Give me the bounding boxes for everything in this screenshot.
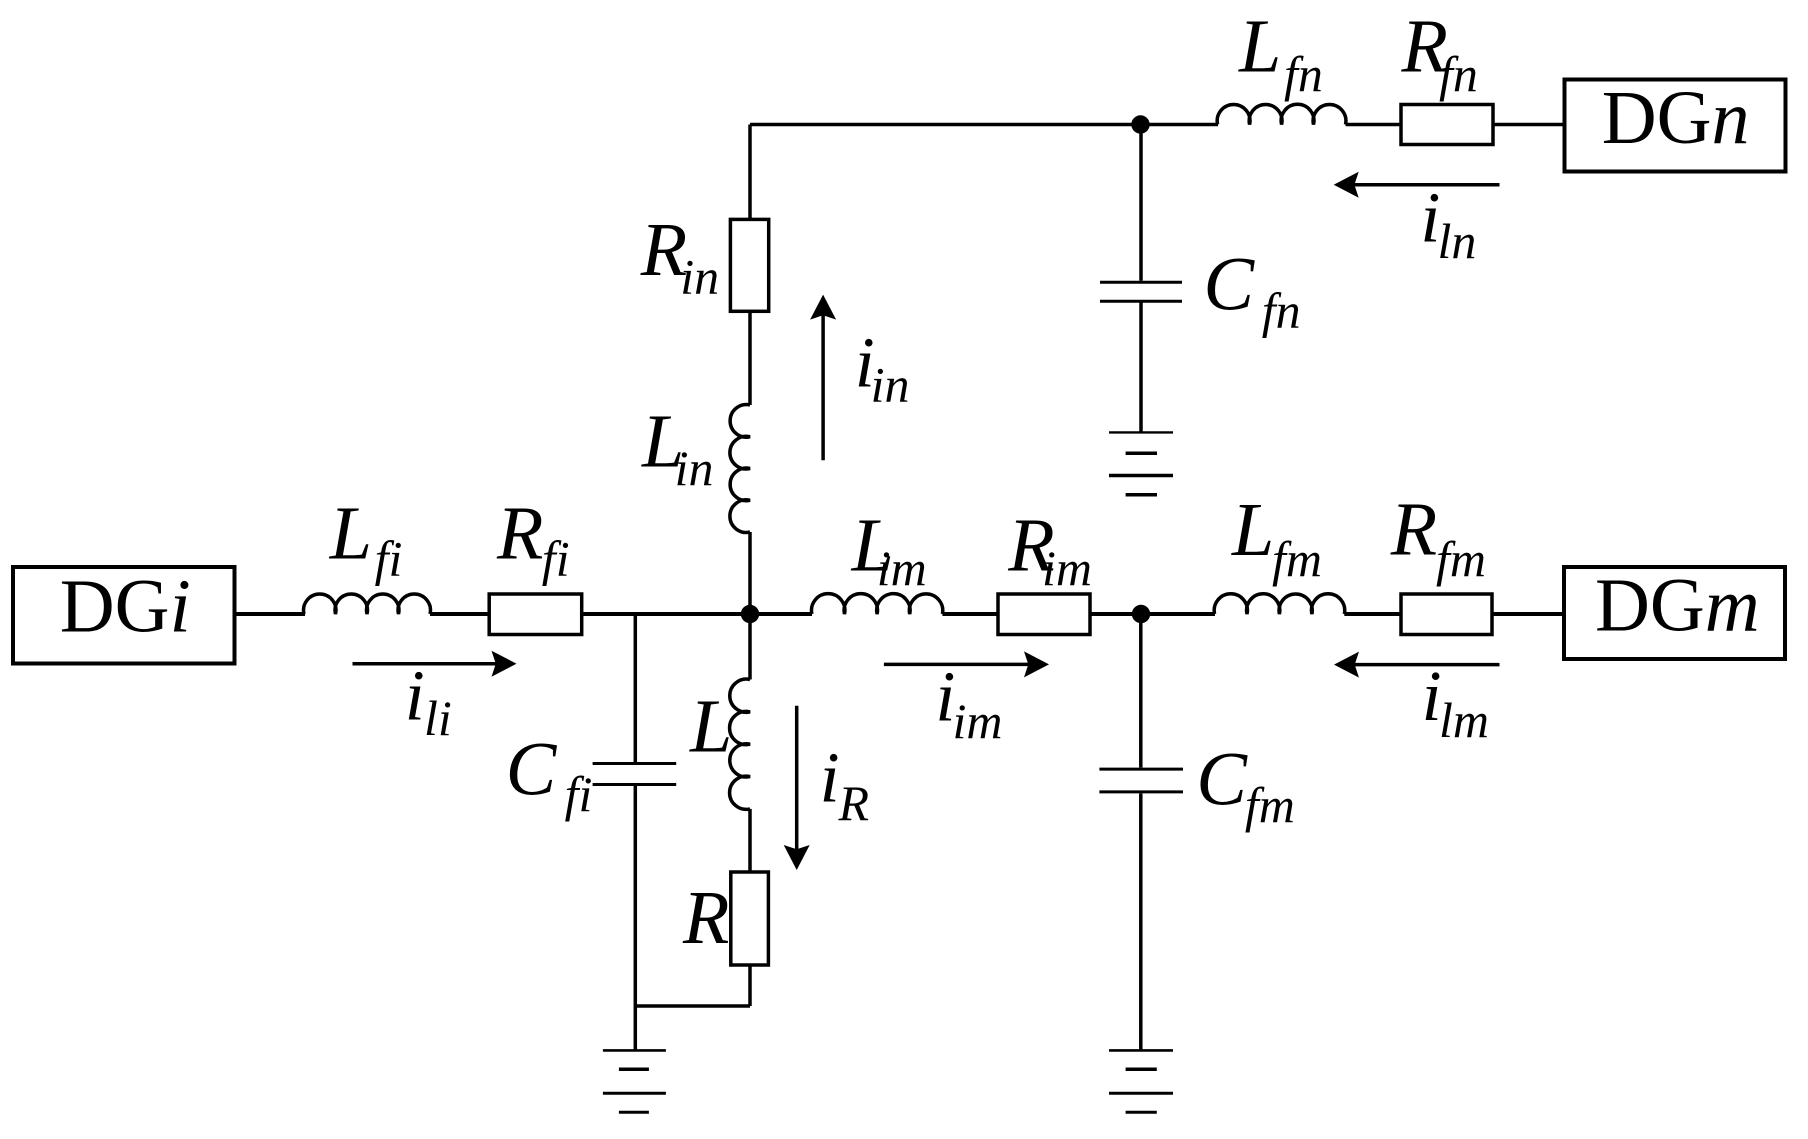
- node A junction dot: [741, 605, 759, 623]
- svg-text:fm: fm: [1436, 531, 1486, 587]
- svg-text:lm: lm: [1439, 692, 1489, 748]
- wire node A to C_fi: [634, 614, 638, 762]
- svg-text:DGn: DGn: [1602, 76, 1750, 160]
- resistor R_in: [730, 219, 768, 311]
- svg-text:in: in: [675, 440, 714, 496]
- label C_fi: [506, 728, 593, 823]
- resistor R: [731, 872, 769, 965]
- svg-text:im: im: [953, 693, 1003, 749]
- svg-text:fi: fi: [375, 531, 403, 587]
- svg-text:R: R: [838, 775, 870, 831]
- wire C_fi to ground: [634, 786, 638, 1050]
- inductor L_fn: [1217, 104, 1346, 124]
- arrow i_li: [353, 651, 517, 677]
- inductor L_im: [812, 594, 943, 614]
- resistor R_fn: [1401, 105, 1493, 145]
- inductor L_fi: [304, 594, 431, 614]
- wire node B to C_fm: [1139, 614, 1143, 768]
- capacitor C_fi: [593, 764, 677, 785]
- label i_im: [935, 657, 1002, 750]
- svg-text:fm: fm: [1245, 777, 1295, 833]
- svg-text:i: i: [820, 737, 840, 817]
- label R_fn: [1401, 5, 1478, 103]
- svg-text:C: C: [1203, 243, 1255, 327]
- label L_fm: [1231, 488, 1322, 587]
- arrow i_in: [810, 295, 836, 461]
- node C junction dot: [1131, 115, 1149, 133]
- inductor L: [730, 679, 750, 809]
- svg-text:ln: ln: [1438, 213, 1477, 269]
- arrow i_im: [884, 651, 1049, 677]
- wire L to R: [748, 809, 752, 872]
- wire L_fm to R_fm: [1344, 612, 1401, 616]
- wire L_im to R_im: [942, 612, 998, 616]
- label R_fm: [1390, 488, 1486, 587]
- svg-text:fi: fi: [542, 531, 570, 587]
- svg-text:fn: fn: [1262, 283, 1301, 339]
- svg-text:fn: fn: [1284, 46, 1323, 102]
- svg-text:li: li: [424, 690, 452, 746]
- svg-text:im: im: [877, 540, 927, 596]
- label i_lm: [1422, 656, 1489, 748]
- wire R_fm to DGm: [1492, 612, 1565, 616]
- svg-text:im: im: [1042, 540, 1092, 596]
- label R_in: [640, 208, 719, 304]
- svg-text:L: L: [329, 492, 372, 576]
- svg-text:R: R: [1390, 488, 1437, 572]
- wire C_fn to ground: [1139, 303, 1143, 433]
- ground under C_fm: [1109, 1050, 1173, 1112]
- wire R_im to node B: [1090, 612, 1215, 616]
- svg-text:R: R: [682, 876, 729, 960]
- label i_in: [855, 322, 910, 412]
- label i_ln: [1420, 177, 1476, 269]
- label L_fi: [329, 492, 403, 587]
- wire L_fn to R_fn: [1346, 123, 1402, 127]
- label i_li: [405, 656, 452, 747]
- label L_im: [851, 504, 927, 597]
- arrow i_lm: [1334, 652, 1500, 678]
- label C_fm: [1196, 738, 1295, 834]
- svg-text:L: L: [1238, 5, 1281, 89]
- inductor L_fm: [1214, 594, 1345, 614]
- wire top horizontal: [750, 123, 1218, 127]
- svg-text:in: in: [871, 356, 910, 412]
- label L_in: [641, 400, 714, 497]
- wire R to bottom: [748, 965, 752, 1006]
- svg-text:L: L: [689, 685, 732, 769]
- DG box m: [1564, 567, 1785, 659]
- label C_fn: [1203, 243, 1300, 339]
- inductor L_in: [730, 405, 750, 533]
- arrow i_R: [784, 706, 810, 870]
- wire top node to C_fn: [1139, 125, 1143, 281]
- svg-text:fi: fi: [565, 766, 593, 822]
- svg-text:in: in: [680, 248, 719, 304]
- wire node A to L: [748, 614, 752, 680]
- resistor R_fm: [1401, 594, 1492, 635]
- ground under C_fi: [603, 1050, 666, 1112]
- svg-text:i: i: [405, 656, 425, 736]
- wire L_in to node A: [748, 532, 752, 614]
- svg-text:R: R: [496, 492, 543, 576]
- resistor R_im: [998, 594, 1090, 635]
- wire R_fi to node A: [582, 612, 812, 616]
- svg-text:C: C: [506, 728, 558, 812]
- wire R_fn to DGn: [1493, 123, 1565, 127]
- resistor R_fi: [489, 594, 582, 635]
- wire L_fi to R_fi: [430, 612, 490, 616]
- svg-text:C: C: [1196, 738, 1248, 822]
- arrow i_ln: [1334, 172, 1500, 198]
- label i_R: [820, 737, 869, 831]
- svg-text:DGm: DGm: [1595, 564, 1760, 648]
- wire main DGi to L_fi: [234, 612, 305, 616]
- svg-text:fm: fm: [1272, 531, 1322, 587]
- node B junction dot: [1132, 605, 1150, 623]
- wire R_in to L_in: [748, 311, 752, 405]
- svg-text:DGi: DGi: [60, 564, 191, 648]
- ground under C_fn: [1109, 432, 1173, 494]
- wire bottom horizontal: [635, 1004, 750, 1008]
- capacitor C_fm: [1099, 769, 1183, 792]
- label R_im: [1007, 504, 1092, 597]
- wire top corner vertical: [748, 125, 752, 220]
- wire C_fm to ground: [1139, 794, 1143, 1051]
- svg-text:L: L: [1231, 488, 1274, 572]
- capacitor C_fn: [1100, 282, 1182, 301]
- label L_fn: [1238, 5, 1323, 103]
- label R_fi: [496, 492, 570, 587]
- DG box i: [13, 567, 235, 664]
- svg-text:fn: fn: [1439, 46, 1478, 102]
- DG box n: [1565, 80, 1786, 172]
